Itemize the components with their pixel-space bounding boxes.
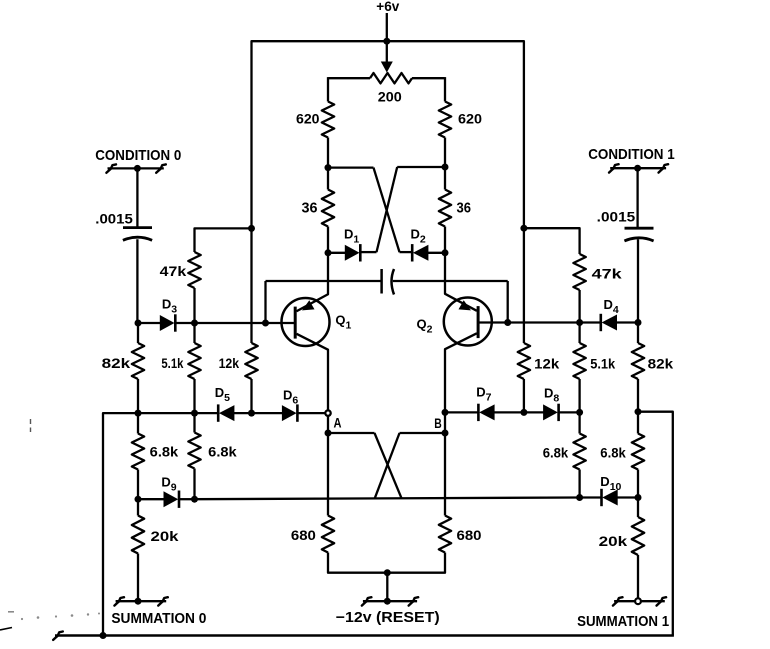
svg-text:20k: 20k — [599, 534, 628, 549]
node D1 anode junction — [325, 249, 332, 256]
resistor 47k right — [573, 254, 585, 290]
resistor 680 right — [439, 516, 451, 553]
node 12k-D7 junction — [520, 409, 527, 416]
svg-text:CONDITION 1: CONDITION 1 — [588, 147, 675, 163]
transistor Q2 base bar — [477, 306, 480, 338]
wire cap right lead — [393, 280, 508, 282]
wire 20k-right top lead — [637, 498, 639, 518]
wire 6.8k right-2 top lead — [578, 412, 580, 433]
svg-text:−12v (RESET): −12v (RESET) — [336, 610, 440, 626]
wire 82k-right top lead — [637, 323, 639, 344]
svg-text:680: 680 — [291, 528, 316, 543]
wire 5.1k-right bottom lead — [578, 379, 580, 412]
svg-text:82k: 82k — [648, 357, 674, 372]
resistor 620 left — [322, 102, 334, 138]
wire Q2 base row to 47k — [508, 321, 580, 323]
stray mark bottom-left edge — [0, 628, 12, 631]
svg-text:12k: 12k — [219, 356, 240, 371]
node D2 anode junction — [442, 249, 449, 256]
diode D3 — [160, 315, 175, 331]
wire cap-left drop to Q1 base — [264, 281, 266, 323]
wire Q2 collector — [445, 333, 477, 412]
resistor 36 left — [322, 190, 334, 227]
resistor 6.8k right-2 — [573, 434, 585, 470]
node 12k-D5 junction — [248, 410, 255, 417]
svg-text:5.1k: 5.1k — [590, 357, 615, 372]
svg-text:620: 620 — [296, 111, 320, 127]
wire upper cross right stub — [397, 166, 445, 168]
svg-text:680: 680 — [457, 528, 482, 543]
wire pot left lead — [328, 77, 370, 79]
svg-text:5.1k: 5.1k — [161, 356, 183, 371]
wire lower cross diagonal B — [375, 433, 400, 498]
wire 20k-left top lead — [137, 499, 139, 515]
node D9 left junction — [135, 496, 142, 503]
resistor 82k right — [632, 343, 644, 379]
node CONDITION 1 terminal — [634, 165, 641, 172]
wire 82k top lead — [137, 323, 139, 343]
wire +6v supply drop — [386, 13, 388, 41]
wire summation long row — [195, 498, 580, 500]
terminal CONDITION 0 line — [108, 167, 164, 169]
svg-text:6.8k: 6.8k — [150, 445, 179, 460]
wire D3 row to Q1 base — [195, 322, 266, 324]
wire 5.1k bottom lead — [193, 379, 195, 413]
resistor 680 left — [322, 516, 334, 553]
svg-text:36: 36 — [457, 201, 472, 217]
svg-text:12k: 12k — [534, 357, 559, 372]
node 5.1k-D5 junction — [191, 410, 198, 417]
wire top rail — [252, 41, 524, 227]
svg-text:.0015: .0015 — [95, 212, 133, 227]
wire left rail 620-to-36 — [327, 138, 329, 190]
terminal SUMMATION 1 line — [614, 600, 665, 602]
wire upper cross bottom-left stub — [361, 251, 377, 253]
scan speckles bottom-left — [8, 611, 100, 620]
wire cap0015-right to D4 row — [637, 239, 639, 322]
wire upper cross diagonal B — [377, 167, 398, 252]
node 47k-right branch junction — [520, 225, 527, 232]
node D4 row right junction — [635, 319, 642, 326]
node SUMMATION 0 terminal — [135, 598, 142, 605]
resistor 47k left — [188, 252, 200, 288]
svg-text:6.8k: 6.8k — [543, 446, 569, 461]
break squiggle reset right — [409, 597, 419, 605]
resistor 6.8k left-1 — [132, 434, 144, 470]
wire 6.8k right-2 bottom lead — [578, 470, 580, 498]
wire left rail A-to-680 — [327, 433, 329, 516]
wire lower cross left stub — [328, 432, 375, 434]
wire reset drop — [386, 573, 388, 602]
wire lower cross right stub — [400, 432, 446, 434]
node D4-47k junction — [576, 319, 583, 326]
resistor 6.8k left-2 — [188, 433, 200, 469]
wire Q1 emitter — [297, 253, 329, 311]
svg-text:SUMMATION 1: SUMMATION 1 — [577, 613, 669, 630]
svg-text:+6v: +6v — [376, 0, 399, 14]
node D10 right junction — [635, 494, 642, 501]
wire 5.1k top lead — [193, 323, 195, 343]
wire left outer stub — [103, 413, 138, 635]
wire upper cross left stub — [328, 166, 374, 168]
wire cap-right drop to Q2 base — [507, 281, 509, 323]
svg-text:20k: 20k — [151, 529, 179, 544]
wire 47k-right to D4 row — [578, 290, 580, 323]
node -12v terminal — [384, 598, 391, 605]
break squiggle bottom-left — [53, 632, 63, 640]
wire left rail pot-to-620 — [327, 77, 329, 101]
wire right outer stub — [638, 412, 673, 636]
diode D5 — [219, 405, 234, 421]
wire 5.1k-right top lead — [578, 323, 580, 344]
break squiggle cond0 left — [106, 164, 116, 172]
resistor 12k left — [245, 343, 257, 379]
wire cond1 drop — [636, 168, 638, 227]
capacitor .0015 right — [625, 227, 654, 230]
resistor 5.1k right — [573, 343, 585, 379]
svg-text:200: 200 — [378, 89, 402, 105]
wire Q2 emitter — [445, 253, 477, 311]
arrow Q1 emitter — [302, 300, 315, 310]
break squiggle cond1 right — [659, 164, 669, 172]
wire Q2 collector to B dot — [444, 412, 446, 433]
potentiometer 200 body — [370, 73, 412, 83]
diode D10 — [602, 490, 617, 506]
node 47k-left branch junction — [248, 225, 255, 232]
resistor 12k right — [518, 343, 530, 379]
node D3-47k junction — [191, 320, 198, 327]
capacitor coupling left plate — [380, 269, 383, 294]
capacitor .0015 left — [123, 226, 152, 229]
node upper-right cross junction — [442, 164, 449, 171]
node D3 row left junction — [135, 320, 142, 327]
node 5.1k-D8 junction — [576, 409, 583, 416]
wire right rail 36-to-D2 — [444, 227, 446, 253]
svg-text:SUMMATION 0: SUMMATION 0 — [111, 610, 206, 627]
break squiggle summ1 left — [613, 597, 623, 605]
terminal SUMMATION 0 line — [116, 600, 167, 602]
wire left rail 36-to-D1 — [327, 227, 329, 253]
wire upper cross diagonal A — [374, 168, 400, 253]
wire Q1 collector — [297, 334, 329, 413]
wire Q1 base lead — [266, 322, 296, 324]
node B junction — [442, 409, 449, 416]
svg-text:.0015: .0015 — [597, 210, 636, 225]
diode D7 — [479, 404, 494, 420]
transistor Q1 base bar — [294, 307, 297, 339]
node Q2 base junction — [504, 319, 511, 326]
wire 12k-left rail crossing — [250, 228, 252, 343]
node 82k-6.8k junction left — [135, 410, 142, 417]
svg-text:6.8k: 6.8k — [208, 445, 237, 460]
wire 47k-right branch — [524, 228, 580, 254]
svg-text:47k: 47k — [592, 267, 622, 282]
wire bottom rail — [55, 634, 674, 637]
diode D4 — [602, 315, 617, 331]
node SUMMATION 1 terminal — [635, 598, 641, 604]
svg-text:CONDITION 0: CONDITION 0 — [95, 148, 181, 164]
wire 6.8k right-1 bottom lead — [637, 470, 639, 498]
terminal CONDITION 1 line — [610, 167, 666, 169]
capacitor coupling right plate — [392, 269, 395, 295]
wire right rail B-to-680 — [444, 433, 446, 516]
terminal -12v line — [363, 600, 417, 602]
node CONDITION 0 terminal — [134, 165, 141, 172]
diode D1 — [345, 245, 360, 261]
wire 6.8k left-2 top lead — [193, 413, 195, 432]
node lower-right cross junction — [442, 430, 449, 437]
node lower-left cross junction — [325, 430, 332, 437]
break squiggle summ0 left — [114, 597, 124, 605]
node D9 right junction — [191, 496, 198, 503]
wire 12k-right rail crossing — [523, 228, 525, 343]
break squiggle summ0 right — [158, 597, 168, 605]
diode D6 — [282, 405, 297, 421]
svg-text:82k: 82k — [102, 356, 131, 371]
transistor Q2 body — [444, 298, 492, 346]
resistor 6.8k right-1 — [632, 434, 644, 470]
wire 6.8k right-1 top lead — [637, 412, 639, 434]
diode D9 — [164, 491, 179, 507]
node upper-left cross junction — [325, 164, 332, 171]
svg-text:36: 36 — [302, 201, 318, 217]
node 82k-6.8k junction right — [635, 408, 642, 415]
wire 12k-right bottom lead — [523, 379, 525, 412]
wire 47k-left to D3 row — [193, 288, 195, 323]
break squiggle summ1 right — [657, 597, 667, 605]
wire 6.8k left-1 top lead — [137, 413, 139, 433]
wire D5 row segment — [138, 412, 195, 414]
resistor 36 right — [439, 190, 451, 227]
wire lower cross diagonal A — [375, 433, 402, 498]
wire 82k-right bottom lead — [637, 379, 639, 412]
node A terminal ring — [325, 410, 330, 415]
break squiggle reset left — [362, 597, 372, 605]
wire 680 bottom connector — [328, 553, 445, 573]
wire 20k-left bottom lead — [137, 554, 139, 602]
wire upper cross bottom-right stub — [400, 251, 412, 253]
wire right rail 620-to-36 — [444, 138, 446, 190]
transistor Q1 body — [282, 298, 330, 346]
svg-text:47k: 47k — [160, 264, 187, 279]
break squiggle cond0 right — [156, 164, 166, 172]
resistor 82k left — [132, 343, 144, 379]
diode D8 — [543, 404, 558, 420]
wire cond0 drop — [136, 168, 138, 227]
node Q1 base junction — [262, 320, 269, 327]
svg-text:B: B — [434, 416, 442, 431]
wire wiper arrow stem — [386, 41, 388, 65]
potentiometer wiper arrow — [381, 62, 393, 73]
wire Q2 base lead — [478, 321, 508, 323]
resistor 620 right — [439, 102, 451, 138]
wire Q1 collector to A dot — [327, 413, 329, 433]
wire cap0015-left to D3 row — [136, 239, 138, 323]
diode D2 — [413, 245, 428, 261]
wire pot right lead — [412, 77, 445, 79]
node reset junction — [384, 569, 391, 576]
resistor 20k right — [632, 517, 644, 555]
break squiggle cond1 left — [609, 164, 619, 172]
wire right rail pot-to-620 — [444, 77, 446, 101]
wire cap left lead — [266, 280, 382, 282]
svg-text:6.8k: 6.8k — [600, 446, 626, 461]
wire 20k-right bottom lead — [637, 555, 639, 599]
wire 82k bottom lead — [137, 379, 139, 413]
resistor 20k left — [132, 516, 144, 554]
arrow Q2 emitter — [459, 300, 472, 310]
resistor 5.1k left — [188, 343, 200, 379]
wire 6.8k left-2 bottom lead — [193, 469, 195, 500]
node D10 left junction — [576, 494, 583, 501]
node +6v junction — [383, 38, 390, 45]
svg-text:A: A — [334, 416, 342, 431]
node left-outer bottom junction — [100, 632, 107, 639]
wire 6.8k left-1 bottom lead — [137, 470, 139, 500]
wire 12k-left bottom lead — [250, 379, 252, 413]
svg-text:620: 620 — [458, 111, 482, 127]
wire 47k-left branch — [195, 228, 252, 252]
stray mark dash left — [30, 419, 32, 432]
